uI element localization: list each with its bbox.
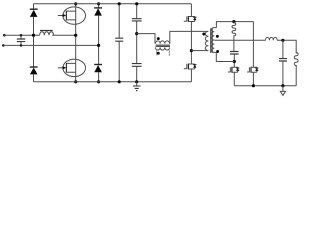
wire slow diode leg x98.6: [98, 4, 100, 82]
node D3 on bus: [97, 2, 100, 5]
diode D1: [30, 10, 38, 17]
node T1 secondary phasing dot lower: [216, 50, 219, 53]
ground primary: [136, 82, 138, 86]
wire LLC leg lower: [190, 69, 192, 82]
diode D4: [94, 65, 102, 72]
wire L1 to fast leg: [52, 34, 76, 36]
transistor M1 leads: [188, 17, 194, 22]
inductor L1 core bar: [40, 30, 53, 32]
transistor M1 gate: [184, 16, 187, 21]
diode D3 cathode bar: [94, 7, 102, 9]
transistor Q2 gate arrow: [63, 66, 67, 70]
capacitor C4 plates: [279, 59, 287, 61]
wire LLC leg upper: [190, 4, 192, 16]
transistor Q1 drain/source leads: [66, 11, 75, 20]
transistor M1 channel: [187, 16, 189, 22]
resistor snubber squiggle: [232, 22, 236, 52]
transistor Q2 drain/source leads: [66, 63, 75, 72]
wire slow diode leg x33.5: [33, 4, 35, 82]
transistor SR1 leads: [232, 67, 238, 72]
transformer T1 core: [211, 28, 213, 53]
transistor Q1 channel bar: [65, 11, 67, 21]
node output junction: [281, 39, 284, 42]
node T1 secondary phasing dot upper: [216, 35, 219, 38]
transformer T2 bottom winding: [155, 47, 169, 50]
capacitor snubber plates: [230, 52, 239, 55]
capacitor C3 plates: [132, 64, 142, 67]
transistor Q1 gate lead: [58, 15, 63, 17]
capacitor CX plates: [17, 39, 25, 42]
diode D3: [94, 8, 102, 15]
node SR2 source on rail: [252, 84, 255, 87]
wire T2 to T1 primary top: [170, 31, 207, 43]
transformer T1 secondary winding: [211, 28, 216, 53]
transistor Q2 gate lead: [58, 67, 63, 69]
node CX bottom junction: [20, 44, 23, 47]
transistor SR1 gate: [228, 67, 230, 72]
transformer T2 core: [156, 45, 170, 46]
node inductor to half-bridge midpoint: [74, 34, 77, 37]
node C1 bottom: [118, 80, 121, 83]
transistor M1 body diode: [194, 17, 196, 22]
node C2 top: [135, 2, 138, 5]
node SR1 drain junction: [233, 60, 236, 63]
node T1 primary phasing dot: [202, 33, 205, 36]
wire top DC bus: [34, 3, 192, 5]
wire secondary top lead: [216, 22, 253, 28]
wire load bottom: [295, 66, 297, 86]
transistor SR1 body diode: [237, 67, 239, 72]
node Q1 drain on bus: [74, 2, 77, 5]
node primary return junction: [190, 49, 193, 52]
transistor SR2 gate: [247, 67, 249, 72]
capacitor C2 leads: [136, 4, 138, 34]
node C1 top: [118, 2, 121, 5]
transistor M2 gate: [184, 64, 187, 69]
node AC terminal N: [2, 44, 5, 47]
transistor SR1 channel: [231, 67, 233, 73]
inductor L1 winding: [40, 32, 54, 35]
transistor Q1 ellipse: [63, 7, 86, 24]
ground secondary stub: [282, 86, 284, 92]
transistor M2 body diode: [194, 64, 196, 69]
node Q2 source on bottom bus: [74, 80, 77, 83]
wire secondary bottom lead: [216, 52, 234, 61]
wire secondary center tap to output: [214, 39, 265, 41]
wire output return rail: [234, 85, 296, 87]
wire AC neutral bottom: [3, 44, 98, 46]
capacitor C1 leads: [118, 4, 120, 82]
node T2 phasing dot top: [157, 37, 160, 40]
node AC terminal L: [3, 34, 6, 37]
transistor Q2 ellipse: [63, 59, 86, 76]
wire MOSFET leg x75.7: [75, 4, 77, 82]
inductor L2 winding: [266, 37, 278, 40]
diode D2 cathode bar: [30, 66, 38, 68]
capacitor C1 plates: [115, 38, 123, 41]
node CX top junction: [20, 34, 23, 37]
node cap midpoint: [135, 32, 138, 35]
transistor SR2 leads: [251, 67, 257, 72]
capacitor C3 leads: [136, 34, 138, 82]
transformer T2 top winding: [155, 41, 169, 44]
wire bottom DC bus: [34, 81, 192, 83]
node leg-line junction: [32, 34, 35, 37]
transistor SR2 body diode: [256, 67, 258, 72]
transistor M2 channel: [187, 64, 189, 70]
node neutral to diode leg junction: [97, 44, 100, 47]
node C3 bottom: [135, 80, 138, 83]
transistor SR2 channel: [250, 67, 252, 73]
wire primary return: [191, 50, 207, 52]
node snubber top junction: [232, 20, 235, 23]
wire SR2 source: [252, 72, 254, 85]
capacitor C2 plates: [132, 19, 142, 21]
node T2 phasing dot bottom: [157, 52, 160, 55]
wire AC line top: [4, 34, 39, 36]
capacitor CX leads: [20, 35, 22, 45]
wire SR2 drain: [252, 22, 254, 68]
node D4 on bottom bus: [97, 80, 100, 83]
wire SR1 source: [233, 72, 235, 85]
diode D2: [30, 68, 38, 75]
transistor M2 leads: [188, 64, 194, 69]
diode D1 cathode bar: [30, 8, 38, 10]
diode D4 cathode bar: [94, 64, 102, 66]
transistor Q2 channel bar: [65, 63, 67, 73]
wire cap midpoint to T2: [137, 34, 155, 44]
transformer T1 primary winding: [205, 31, 208, 50]
wire LLC midpoint: [190, 22, 192, 64]
ground secondary triangle: [280, 91, 285, 95]
capacitor C4 leads: [282, 40, 284, 85]
resistor load squiggle: [294, 53, 298, 67]
node C4 on rail: [281, 84, 284, 87]
wire T2 secondary right lead: [168, 50, 170, 57]
wire L2 to output corner: [277, 40, 296, 53]
wire snubber cap to SR1 drain: [233, 54, 235, 67]
transistor Q1 gate arrow: [63, 14, 67, 18]
wire T2 secondary left lead: [156, 50, 158, 56]
